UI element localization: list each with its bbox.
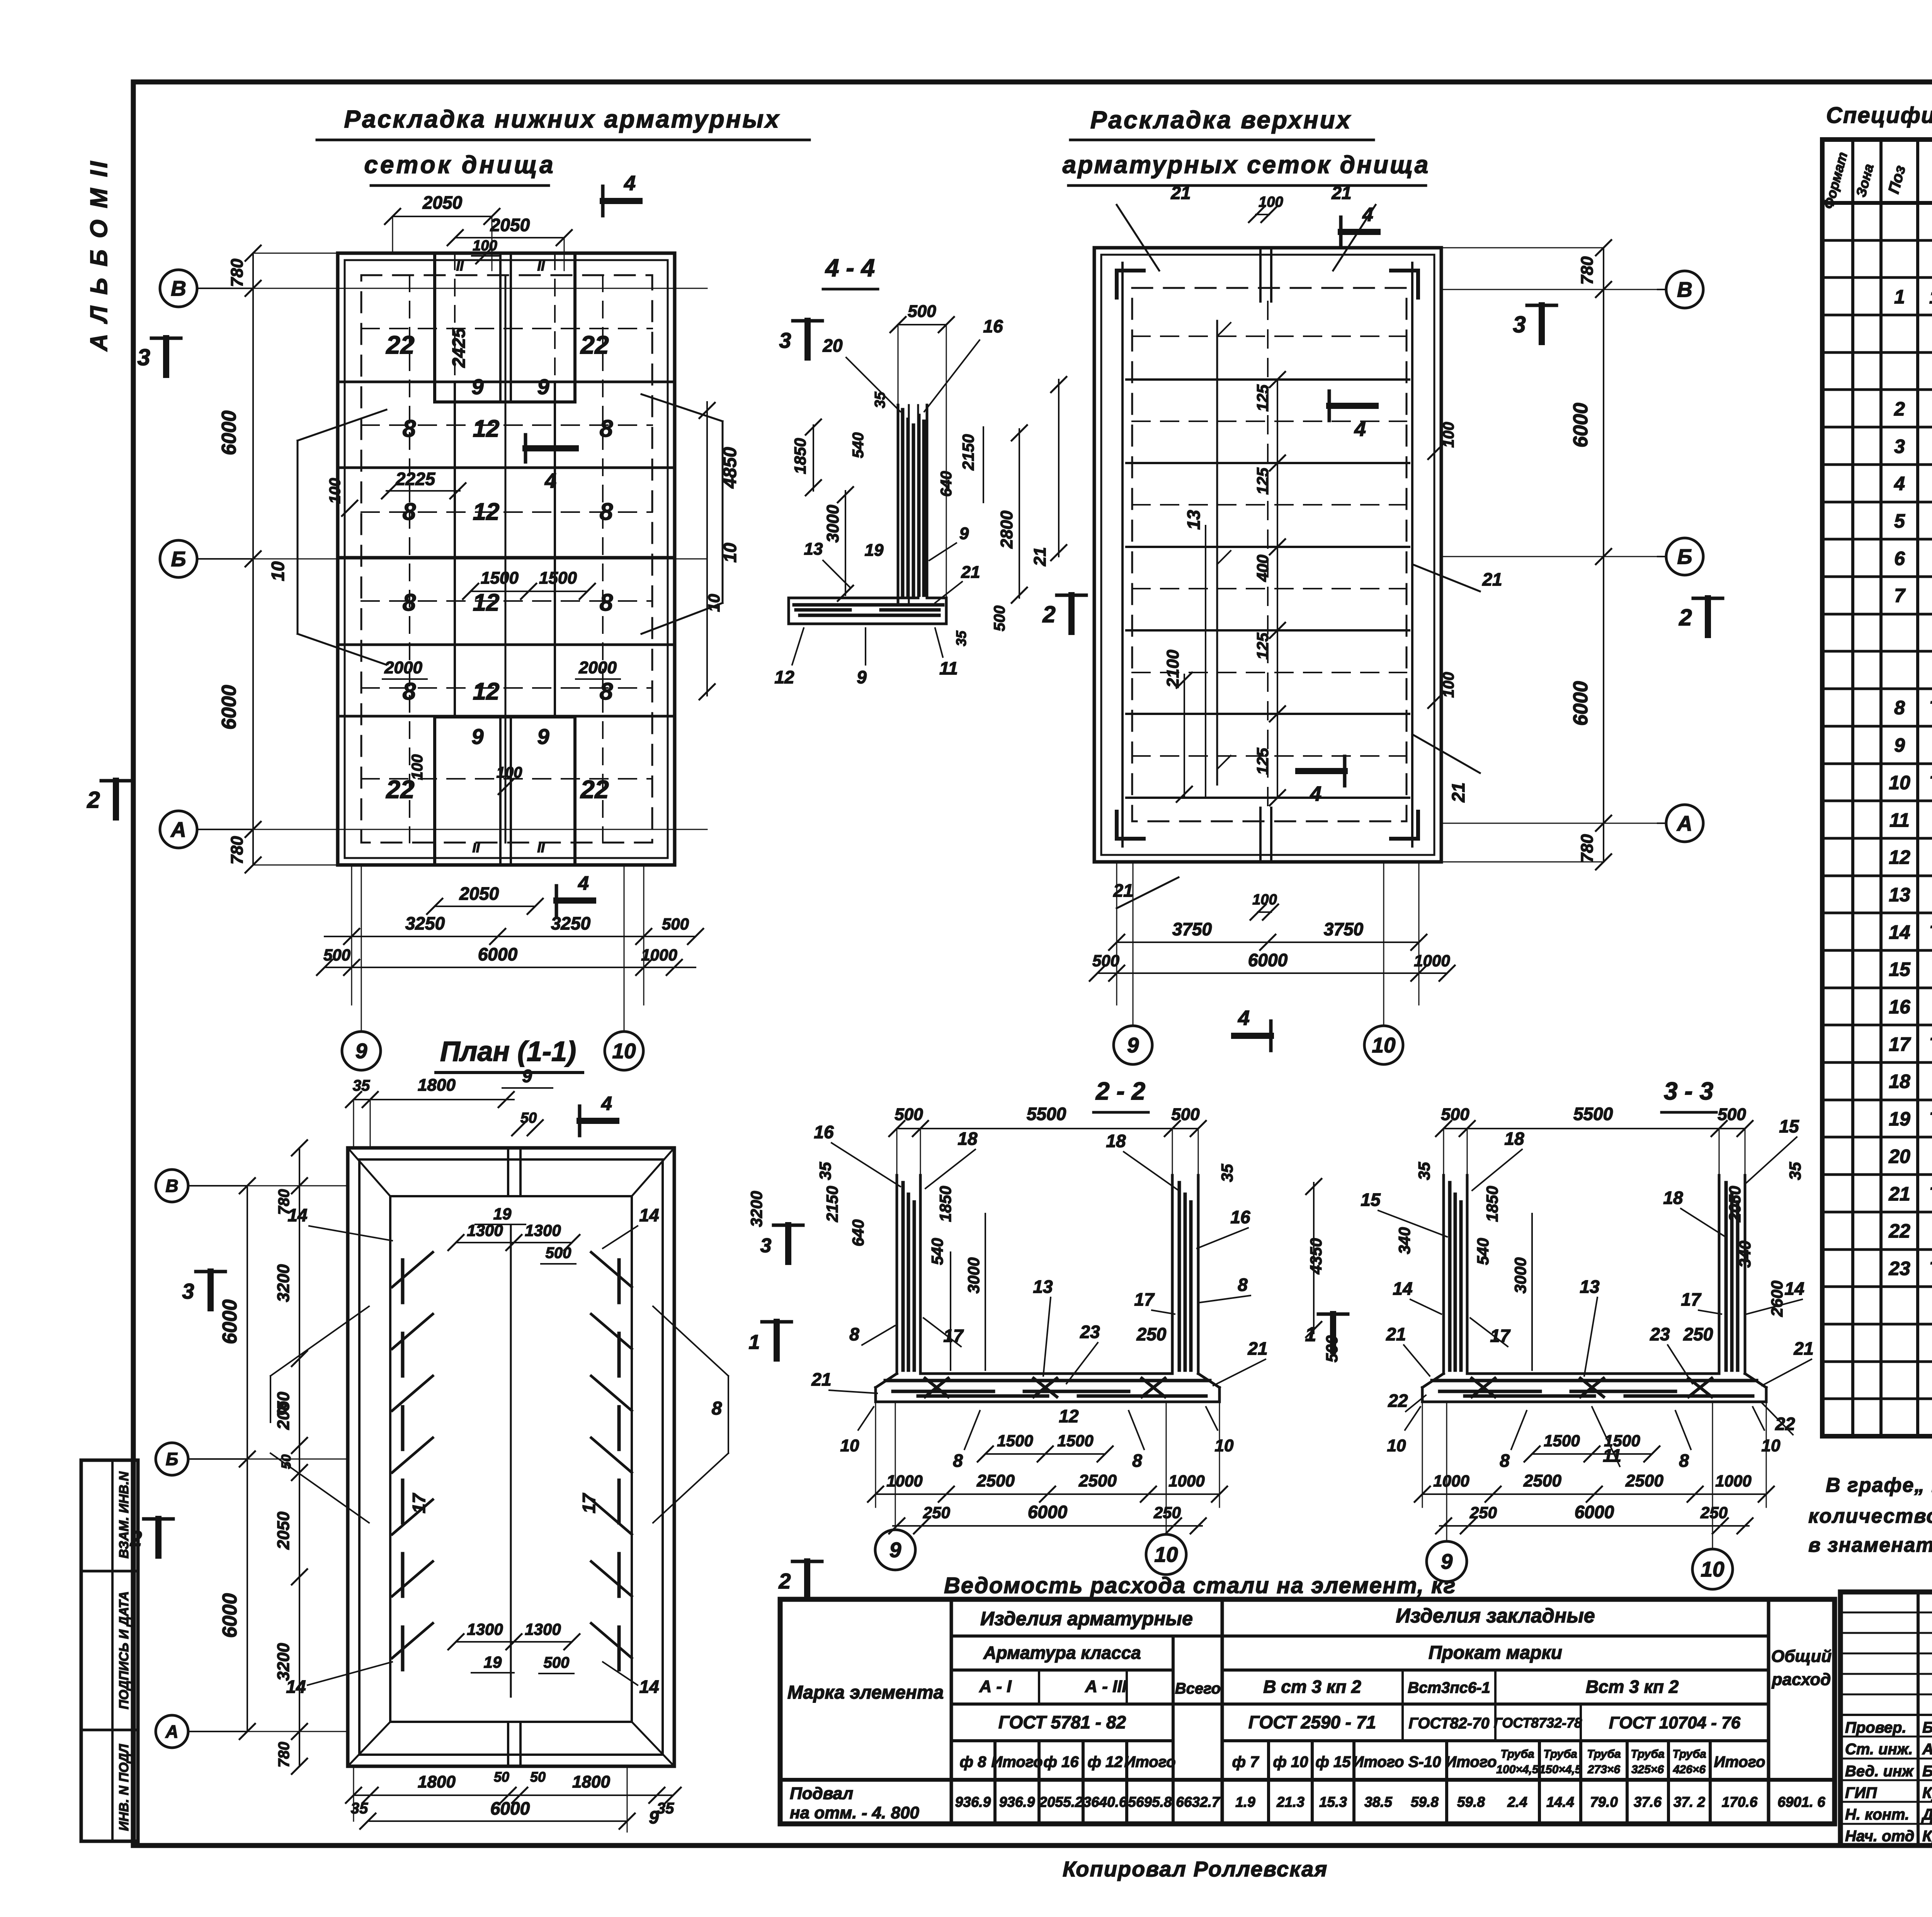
svg-text:4: 4: [624, 172, 636, 195]
svg-text:780: 780: [276, 1189, 293, 1215]
svg-text:640: 640: [849, 1219, 867, 1246]
svg-text:А - III: А - III: [1085, 1677, 1127, 1696]
svg-text:21.3: 21.3: [1276, 1794, 1304, 1810]
svg-text:12: 12: [473, 415, 500, 442]
svg-text:14: 14: [1784, 1279, 1804, 1299]
svg-text:2225: 2225: [395, 469, 436, 489]
svg-text:9: 9: [537, 375, 549, 399]
svg-text:3200: 3200: [274, 1264, 293, 1302]
svg-text:5695.8: 5695.8: [1128, 1794, 1172, 1810]
svg-text:125: 125: [1253, 632, 1272, 660]
svg-text:250: 250: [1683, 1324, 1713, 1344]
svg-text:2000: 2000: [578, 658, 617, 677]
svg-text:Ведомость расхода стали н: Ведомость расхода стали на элемент, кг: [944, 1573, 1456, 1598]
svg-text:ф 7: ф 7: [1232, 1754, 1260, 1771]
svg-text:936.9: 936.9: [955, 1794, 991, 1810]
svg-text:Вст3пс6-1: Вст3пс6-1: [1408, 1679, 1490, 1696]
svg-text:8: 8: [1238, 1275, 1248, 1295]
svg-text:13: 13: [1033, 1277, 1053, 1297]
svg-text:21: 21: [1793, 1338, 1813, 1359]
svg-text:125: 125: [1253, 384, 1272, 412]
svg-text:А Л Ь Б О М II: А Л Ь Б О М II: [86, 159, 112, 352]
svg-text:Нач. отд: Нач. отд: [1845, 1828, 1914, 1845]
svg-text:1300: 1300: [467, 1620, 503, 1638]
svg-text:15: 15: [1361, 1190, 1381, 1210]
svg-text:500: 500: [1441, 1105, 1469, 1124]
svg-text:35: 35: [1415, 1162, 1433, 1180]
svg-text:6000: 6000: [1028, 1502, 1068, 1522]
svg-text:21: 21: [1888, 1183, 1910, 1205]
svg-text:500: 500: [1171, 1105, 1200, 1124]
plan1 left dimension chain with axes: [218, 245, 707, 873]
svg-text:1800: 1800: [418, 1076, 456, 1095]
svg-text:14: 14: [1393, 1279, 1412, 1299]
axis circle 10 under section 3-3: [1692, 1402, 1733, 1589]
svg-text:Арматура класса: Арматура класса: [983, 1643, 1141, 1663]
svg-text:1000: 1000: [1715, 1472, 1751, 1490]
copied-by note: [1063, 1857, 1328, 1881]
svg-text:2: 2: [1894, 398, 1905, 420]
steel consumption table title: [944, 1573, 1456, 1598]
svg-text:6000: 6000: [218, 410, 240, 455]
svg-text:4: 4: [1310, 782, 1321, 805]
svg-text:50: 50: [530, 1769, 546, 1785]
svg-text:Раскладка нижних арматурных: Раскладка нижних арматурных: [344, 105, 780, 133]
svg-text:5500: 5500: [1027, 1104, 1066, 1124]
svg-text:150×4,5: 150×4,5: [1539, 1763, 1582, 1776]
svg-text:14: 14: [1889, 921, 1910, 943]
svg-text:3: 3: [779, 328, 791, 352]
svg-text:расход: расход: [1772, 1670, 1831, 1689]
svg-text:2: 2: [778, 1569, 791, 1593]
svg-text:6901. 6: 6901. 6: [1777, 1794, 1825, 1810]
svg-text:А: А: [165, 1721, 178, 1742]
steel table data row: [790, 1784, 1825, 1822]
svg-text:325×6: 325×6: [1631, 1763, 1664, 1776]
svg-text:1: 1: [749, 1331, 760, 1353]
svg-text:35: 35: [953, 630, 969, 646]
svg-text:250: 250: [1153, 1503, 1181, 1522]
svg-text:3200: 3200: [747, 1191, 765, 1227]
svg-text:6000: 6000: [218, 685, 240, 730]
svg-text:ГОСТ 5781 - 82: ГОСТ 5781 - 82: [998, 1712, 1126, 1732]
svg-text:4: 4: [1894, 473, 1905, 494]
plan3 wall hatch strokes: [392, 1252, 632, 1670]
svg-text:ВЗАМ. ИНВ.N: ВЗАМ. ИНВ.N: [117, 1471, 131, 1558]
svg-text:8: 8: [712, 1398, 722, 1419]
svg-text:3750: 3750: [1324, 919, 1364, 939]
svg-text:22: 22: [580, 775, 609, 804]
svg-text:Копировал Роллевская: Копировал Роллевская: [1063, 1857, 1328, 1881]
svg-text:Труба: Труба: [1587, 1748, 1621, 1760]
svg-text:8: 8: [953, 1451, 963, 1471]
section 3-3 extra marks: [1305, 1179, 1532, 1370]
svg-text:Итого: Итого: [1352, 1754, 1404, 1771]
svg-text:А: А: [1676, 811, 1692, 835]
svg-text:Провер.: Провер.: [1845, 1719, 1906, 1736]
title block signatures column: [1845, 1719, 1932, 1845]
svg-text:500: 500: [544, 1654, 570, 1671]
svg-text:Итого: Итого: [1445, 1754, 1497, 1771]
svg-text:3640.6: 3640.6: [1083, 1794, 1127, 1810]
svg-text:ГОСТ82-70: ГОСТ82-70: [1408, 1715, 1489, 1732]
svg-text:В: В: [165, 1176, 178, 1196]
svg-text:3: 3: [137, 344, 150, 370]
svg-text:22: 22: [1388, 1391, 1408, 1411]
svg-text:1300: 1300: [467, 1221, 503, 1239]
plan view: нижние сетки днища (top-left): [338, 253, 675, 865]
svg-text:59.8: 59.8: [1411, 1794, 1439, 1810]
section mark 3 left of plan1: [137, 338, 181, 375]
svg-text:ТП902-1-134. 88 КЖИ. 49. 00: ТП902-1-134. 88 КЖИ. 49. 00: [1929, 1184, 1932, 1205]
svg-text:2500: 2500: [1625, 1471, 1663, 1490]
svg-text:8: 8: [403, 678, 416, 705]
svg-text:ГОСТ 10704 - 76: ГОСТ 10704 - 76: [1609, 1713, 1741, 1732]
spec rows 2-7: сальники: [1894, 392, 1932, 612]
svg-text:Архипова: Архипова: [1922, 1741, 1932, 1758]
svg-text:Кузнецов .: Кузнецов .: [1922, 1784, 1932, 1801]
axis circle 9 under plan1: [342, 865, 381, 1070]
svg-text:II: II: [456, 259, 464, 274]
svg-text:1500: 1500: [1544, 1432, 1580, 1450]
svg-text:250: 250: [1136, 1324, 1167, 1344]
svg-text:21: 21: [1170, 183, 1190, 203]
section 2-2 extra marks: [749, 1214, 985, 1598]
plan2 bottom dimensions: [1090, 862, 1455, 1005]
plan2 right dimension chain with axes: [1441, 240, 1658, 870]
svg-text:Итого: Итого: [1714, 1754, 1765, 1771]
svg-text:1850: 1850: [936, 1186, 954, 1222]
svg-text:8: 8: [1132, 1451, 1142, 1471]
svg-text:12: 12: [1059, 1406, 1079, 1426]
svg-text:2500: 2500: [976, 1471, 1015, 1490]
svg-text:10: 10: [612, 1039, 636, 1063]
svg-text:16: 16: [814, 1122, 834, 1142]
svg-text:3250: 3250: [551, 913, 591, 933]
left margin stamp boxes: [81, 1460, 138, 1841]
svg-text:100: 100: [473, 238, 497, 254]
svg-text:22: 22: [1775, 1414, 1795, 1434]
svg-text:100: 100: [327, 478, 344, 504]
axis circle 9 under section 2-2: [875, 1402, 915, 1570]
svg-text:А: А: [170, 817, 186, 841]
svg-text:100: 100: [497, 764, 522, 781]
svg-text:17: 17: [1681, 1289, 1702, 1309]
steel table grid: [780, 1599, 1835, 1824]
section mark 4 inside plan2 bottom: [1298, 756, 1345, 805]
caption 3-3: [1662, 1077, 1716, 1112]
section 2-2 bottom dimensions: [840, 1402, 1234, 1534]
svg-text:500: 500: [1092, 952, 1119, 970]
plan view: верхние сетки днища (top-middle): [1094, 248, 1441, 862]
svg-text:ф 15: ф 15: [1316, 1754, 1351, 1771]
svg-text:14: 14: [639, 1677, 659, 1697]
svg-text:2.4: 2.4: [1507, 1794, 1527, 1810]
svg-text:А - I: А - I: [979, 1677, 1012, 1696]
svg-text:6000: 6000: [490, 1798, 530, 1818]
svg-text:2055.2: 2055.2: [1039, 1794, 1083, 1810]
svg-text:21: 21: [1031, 547, 1049, 567]
plan1 bottom tab (opening): [435, 717, 575, 865]
svg-text:Б: Б: [171, 547, 186, 571]
svg-text:II: II: [537, 259, 545, 274]
svg-text:1300: 1300: [525, 1620, 561, 1638]
svg-text:Марка элемента: Марка элемента: [787, 1682, 944, 1703]
svg-text:на отм. - 4. 800: на отм. - 4. 800: [790, 1803, 919, 1822]
svg-text:1300: 1300: [525, 1221, 561, 1239]
svg-text:23: 23: [1650, 1324, 1670, 1344]
svg-text:936.9: 936.9: [999, 1794, 1035, 1810]
svg-text:10: 10: [705, 594, 723, 612]
svg-text:13: 13: [804, 540, 823, 558]
svg-text:арматурных сеток днища: арматурных сеток днища: [1063, 151, 1430, 179]
plan1 top tab (opening): [435, 253, 575, 402]
svg-text:17: 17: [409, 1493, 429, 1514]
svg-text:Подвал: Подвал: [790, 1784, 853, 1803]
axis circle А plan1: [160, 811, 253, 848]
svg-text:Б: Б: [1677, 545, 1692, 569]
svg-text:12: 12: [774, 667, 794, 687]
svg-text:50: 50: [494, 1769, 509, 1785]
svg-text:23: 23: [1888, 1258, 1910, 1279]
svg-text:3750: 3750: [1172, 919, 1212, 939]
svg-text:10: 10: [268, 561, 288, 581]
svg-text:Ст. инж.: Ст. инж.: [1845, 1741, 1913, 1758]
svg-text:100×4,5: 100×4,5: [1496, 1763, 1539, 1776]
svg-text:100: 100: [1259, 194, 1283, 210]
svg-text:426×6: 426×6: [1673, 1763, 1706, 1776]
axis circle 9 under section 3-3: [1427, 1402, 1467, 1582]
svg-text:ТП902-1-134. 88 КЖИ. 50. 00: ТП902-1-134. 88 КЖИ. 50. 00: [1929, 1259, 1932, 1279]
svg-text:35: 35: [353, 1077, 370, 1094]
section 2-2 leader labels: [747, 1122, 1268, 1426]
svg-text:500: 500: [895, 1105, 923, 1124]
svg-text:5: 5: [1894, 510, 1905, 532]
svg-text:2050: 2050: [274, 1392, 293, 1430]
svg-text:8: 8: [849, 1324, 859, 1344]
caption 4-4: [823, 254, 878, 289]
svg-text:Вед. инж: Вед. инж: [1845, 1763, 1914, 1780]
note about quantities: [1808, 1474, 1932, 1556]
svg-text:59.8: 59.8: [1457, 1794, 1485, 1810]
svg-text:5500: 5500: [1573, 1104, 1613, 1124]
svg-text:1000: 1000: [1433, 1472, 1469, 1490]
plan2 leader callouts 21: [1031, 183, 1502, 803]
svg-text:9: 9: [355, 1039, 367, 1063]
plan1 top dimensions 2050: [385, 172, 639, 271]
svg-text:19: 19: [484, 1653, 502, 1671]
svg-text:9: 9: [471, 375, 483, 399]
svg-text:1500: 1500: [997, 1432, 1033, 1450]
svg-text:21: 21: [1247, 1338, 1267, 1359]
plan1 inner dimensions: [382, 435, 620, 794]
svg-text:35: 35: [1786, 1162, 1804, 1180]
title: раскладка верхних арматурных сеток днища: [1063, 106, 1430, 186]
svg-text:500: 500: [991, 606, 1008, 632]
svg-text:1850: 1850: [1483, 1186, 1501, 1222]
svg-text:3000: 3000: [823, 505, 842, 543]
plan1 leader callout 10 right: [641, 394, 740, 634]
svg-text:Изделия закладные: Изделия закладные: [1396, 1605, 1595, 1627]
svg-text:3: 3: [182, 1279, 194, 1303]
svg-text:1800: 1800: [572, 1772, 610, 1791]
svg-text:6000: 6000: [1248, 950, 1288, 970]
section 4-4 wall and slab: [789, 405, 946, 624]
axis circle В plan1: [160, 270, 253, 307]
svg-text:13: 13: [1184, 510, 1204, 530]
svg-text:ИНВ. N ПОДЛ: ИНВ. N ПОДЛ: [117, 1744, 131, 1831]
svg-text:10: 10: [720, 543, 740, 563]
svg-text:6: 6: [1894, 548, 1905, 569]
svg-text:780: 780: [228, 836, 247, 865]
svg-text:Б: Б: [166, 1449, 179, 1469]
section 2-2 walls and slab: [876, 1175, 1219, 1402]
svg-text:10: 10: [1701, 1557, 1725, 1581]
svg-text:Бабикова: Бабикова: [1922, 1763, 1932, 1780]
svg-text:ф 12: ф 12: [1088, 1754, 1123, 1771]
svg-text:19: 19: [865, 541, 884, 560]
svg-text:640: 640: [938, 471, 955, 497]
svg-text:Труба: Труба: [1672, 1748, 1706, 1760]
svg-text:35: 35: [872, 392, 888, 408]
svg-text:10: 10: [1372, 1033, 1396, 1057]
svg-text:21: 21: [1331, 183, 1351, 203]
svg-text:17: 17: [579, 1493, 599, 1514]
svg-text:S-10: S-10: [1408, 1754, 1441, 1771]
svg-text:6000: 6000: [1570, 681, 1592, 726]
svg-text:79.0: 79.0: [1590, 1794, 1618, 1810]
axis circle 9 under plan2: [1114, 862, 1152, 1064]
svg-text:780: 780: [228, 259, 247, 287]
plan view: план 1-1 (bottom-left): [348, 1148, 674, 1766]
svg-text:35: 35: [1218, 1164, 1236, 1182]
svg-text:21: 21: [1482, 569, 1502, 589]
section mark 3 left of plan3: [182, 1272, 225, 1308]
plan3 internal labels: [409, 1205, 599, 1674]
steel table headers: [787, 1605, 1832, 1776]
svg-text:Общий: Общий: [1771, 1647, 1832, 1666]
svg-text:2050: 2050: [422, 192, 463, 213]
album label vertical text: [86, 159, 112, 352]
svg-text:Спецификация элементов монол: Спецификация элементов монолитной констр…: [1826, 103, 1932, 128]
svg-text:В: В: [1677, 278, 1692, 301]
caption план (1-1): [436, 1036, 583, 1073]
svg-text:8: 8: [1679, 1451, 1689, 1471]
axis circle А plan3: [156, 1715, 247, 1748]
svg-text:273×6: 273×6: [1587, 1763, 1621, 1776]
svg-text:В ст 3 кп 2: В ст 3 кп 2: [1263, 1677, 1361, 1697]
svg-text:количество сальников для: количество сальников для системы и 3.1: [1808, 1505, 1932, 1527]
svg-text:10: 10: [1889, 772, 1910, 793]
svg-text:9: 9: [537, 724, 549, 749]
section 2-2 top dimension 500-5500-500: [889, 1104, 1206, 1175]
svg-text:18: 18: [1663, 1188, 1683, 1208]
svg-text:38.5: 38.5: [1364, 1794, 1393, 1810]
svg-text:9: 9: [1127, 1033, 1139, 1057]
svg-text:500: 500: [908, 302, 936, 321]
svg-text:22: 22: [385, 330, 415, 359]
svg-text:9: 9: [959, 524, 969, 543]
svg-text:3250: 3250: [405, 913, 445, 933]
svg-text:17: 17: [1889, 1033, 1911, 1055]
svg-text:540: 540: [850, 432, 867, 458]
svg-text:15: 15: [1779, 1116, 1799, 1136]
svg-text:500: 500: [323, 946, 350, 964]
section 3-3 walls and slab: [1422, 1175, 1766, 1402]
svg-text:План (1-1): План (1-1): [440, 1036, 576, 1067]
svg-text:10: 10: [1154, 1542, 1178, 1566]
svg-text:2050: 2050: [1726, 1186, 1744, 1222]
svg-text:37. 2: 37. 2: [1673, 1794, 1706, 1810]
svg-text:12: 12: [473, 678, 500, 705]
svg-text:2500: 2500: [1523, 1471, 1561, 1490]
svg-text:21: 21: [1113, 880, 1133, 901]
section 3-3 top dimension 500-5500-500: [1436, 1104, 1753, 1175]
svg-text:3000: 3000: [1511, 1257, 1529, 1293]
svg-text:780: 780: [1578, 834, 1597, 863]
svg-text:II: II: [537, 841, 545, 855]
svg-text:3200: 3200: [274, 1643, 293, 1681]
svg-text:1000: 1000: [886, 1472, 922, 1490]
svg-text:500: 500: [1718, 1105, 1746, 1124]
svg-text:2: 2: [1679, 604, 1692, 630]
svg-text:сеток днища: сеток днища: [364, 151, 555, 179]
specification table grid: [1822, 140, 1932, 1436]
svg-text:2100: 2100: [1163, 650, 1182, 688]
svg-text:10: 10: [840, 1436, 859, 1455]
section mark 2 left of plan2: [1042, 595, 1086, 632]
svg-text:9: 9: [1894, 734, 1905, 756]
svg-text:9: 9: [1441, 1549, 1453, 1573]
svg-text:7: 7: [1894, 585, 1906, 606]
plan3 top dimensions: [346, 1066, 616, 1148]
svg-text:4 - 4: 4 - 4: [825, 254, 875, 282]
svg-text:в знаменателе - для систе: в знаменателе - для систем ы и 4. 1.: [1808, 1534, 1932, 1556]
svg-text:8: 8: [600, 678, 613, 705]
svg-text:16: 16: [1230, 1207, 1250, 1227]
svg-text:1.400 - 15. В 1. 130 - 19: 1.400 - 15. В 1. 130 - 19: [1929, 287, 1932, 308]
svg-text:ТП902-1-134. 88 КЖИ. 45. 00: ТП902-1-134. 88 КЖИ. 45. 00: [1929, 698, 1932, 718]
svg-text:Изделия арматурные: Изделия арматурные: [980, 1608, 1193, 1629]
svg-text:ГИП: ГИП: [1845, 1784, 1877, 1801]
svg-text:35: 35: [816, 1162, 834, 1180]
svg-text:1000: 1000: [641, 946, 677, 964]
svg-text:540: 540: [928, 1238, 946, 1265]
svg-text:3: 3: [1513, 312, 1526, 337]
svg-text:ГОСТ 2590 - 71: ГОСТ 2590 - 71: [1248, 1712, 1376, 1732]
svg-text:2050: 2050: [459, 884, 499, 904]
section 3-3 bottom dimensions: [1387, 1402, 1781, 1534]
svg-text:ГОСТ8732-78: ГОСТ8732-78: [1494, 1715, 1582, 1731]
plan3 left dimension chains with axes: [219, 1140, 348, 1774]
section mark 4 under plan2: [1234, 1006, 1271, 1050]
spec row 1: изделие закладное: [1894, 286, 1932, 308]
svg-text:10: 10: [1762, 1436, 1781, 1455]
svg-text:4: 4: [1362, 204, 1373, 225]
svg-text:19: 19: [1889, 1108, 1910, 1130]
svg-text:6000: 6000: [478, 944, 518, 964]
svg-text:22: 22: [580, 330, 609, 359]
svg-text:540: 540: [1474, 1238, 1492, 1265]
svg-text:13: 13: [1580, 1277, 1600, 1297]
svg-text:2500: 2500: [1078, 1471, 1117, 1490]
plan1 mesh labels: [385, 327, 613, 804]
svg-text:1800: 1800: [418, 1772, 456, 1791]
svg-text:Красавин: Красавин: [1922, 1828, 1932, 1845]
svg-text:9: 9: [649, 1807, 659, 1827]
svg-text:9: 9: [889, 1538, 901, 1562]
svg-text:400: 400: [1253, 555, 1272, 582]
